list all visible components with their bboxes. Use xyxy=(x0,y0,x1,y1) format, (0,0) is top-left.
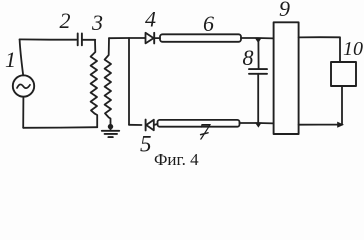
transformer T3 secondary winding xyxy=(105,38,111,126)
svg-text:10: 10 xyxy=(343,38,363,60)
junction node B blob xyxy=(255,122,262,127)
wire block 9 to load 10 top xyxy=(299,37,340,62)
wire delay line 6 to block 9 xyxy=(241,37,274,39)
ground symbol xyxy=(110,127,112,131)
transformer T3 primary winding xyxy=(91,40,97,114)
capacitor C2 left plate xyxy=(77,34,79,46)
wire return rail up to source xyxy=(22,97,24,128)
ground junction dot xyxy=(108,124,113,129)
wire junction down to capacitor 8 xyxy=(257,40,259,69)
wire bottom return rail xyxy=(23,126,97,129)
svg-text:1: 1 xyxy=(5,47,16,72)
block 9 body xyxy=(274,22,299,134)
wire primary bottom to return rail xyxy=(95,114,98,128)
svg-text:4: 4 xyxy=(145,7,156,32)
caption Фиг. 4 xyxy=(154,150,199,170)
svg-text:7: 7 xyxy=(199,120,212,145)
wire load 10 bottom down xyxy=(341,86,343,125)
label 7 cross stroke xyxy=(201,133,208,135)
wire delay line 7 to block 9 xyxy=(240,122,274,124)
svg-text:6: 6 xyxy=(203,11,214,36)
diode D5 cathode bar xyxy=(145,120,147,131)
wire top-left rail xyxy=(20,38,77,40)
wire capacitor to transformer primary xyxy=(82,39,95,41)
svg-text:3: 3 xyxy=(91,10,103,35)
wire diode 4 to delay line 6 xyxy=(154,37,160,39)
arrowhead into node C xyxy=(337,122,344,128)
wire source top to rail xyxy=(20,39,24,75)
capacitor C8 top plate xyxy=(249,68,267,70)
load 10 body xyxy=(331,62,356,86)
svg-text:9: 9 xyxy=(279,0,290,21)
AC source sine symbol xyxy=(17,84,30,88)
wire lower branch to diode 5 xyxy=(129,124,142,126)
diode D4 triangle xyxy=(146,33,154,44)
delay line 6 body xyxy=(160,34,241,42)
wire capacitor 8 down to bottom rail xyxy=(257,74,259,123)
AC source U1 circle xyxy=(13,75,34,96)
capacitor C2 right plate xyxy=(81,34,83,46)
wire secondary top rail to diode 4 xyxy=(109,37,145,39)
wire diode 5 to delay line 7 xyxy=(154,124,158,125)
wire block 9 to arrow junction xyxy=(299,124,339,126)
junction node A blob xyxy=(255,38,262,43)
node T junction to lower branch xyxy=(128,38,130,125)
delay line 7 body xyxy=(158,120,240,127)
diode D4 cathode bar xyxy=(153,33,155,44)
svg-text:5: 5 xyxy=(140,132,152,157)
capacitor C8 bottom plate xyxy=(249,73,267,75)
svg-text:8: 8 xyxy=(243,45,254,70)
diode D5 triangle xyxy=(146,120,154,131)
svg-text:2: 2 xyxy=(60,8,71,33)
